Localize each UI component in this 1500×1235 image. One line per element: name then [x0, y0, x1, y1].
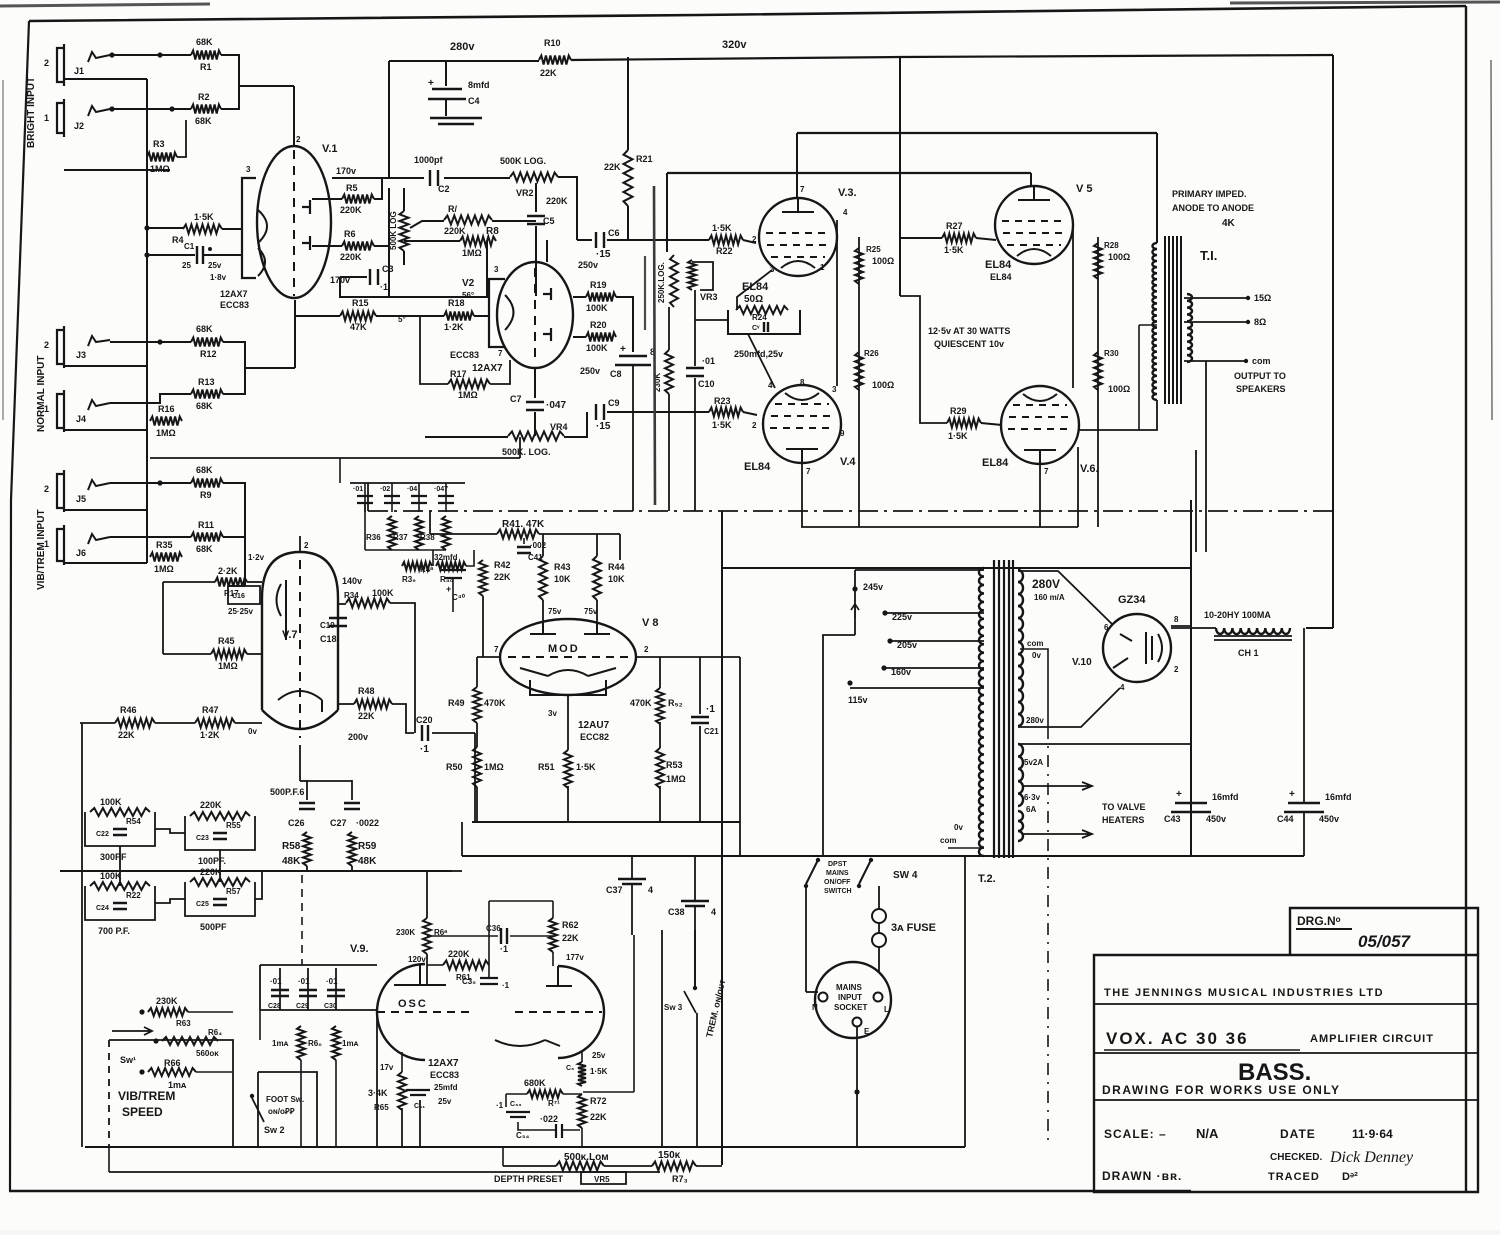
svg-text:205v: 205v — [897, 640, 917, 650]
svg-text:BRIGHT INPUT: BRIGHT INPUT — [26, 77, 37, 148]
svg-text:R53: R53 — [666, 760, 683, 770]
svg-text:·01: ·01 — [353, 486, 363, 493]
svg-text:C44: C44 — [1277, 814, 1294, 824]
wire C1 to grid box — [204, 254, 242, 256]
capacitor C7 .047 — [526, 402, 544, 410]
svg-text:V 5: V 5 — [1076, 183, 1093, 195]
wire grid feed — [163, 581, 215, 583]
wire lower return drop — [108, 1147, 110, 1172]
resistor R29 1.5K — [947, 419, 981, 428]
potentiometer VR3b — [688, 260, 696, 290]
wire R6 to C3 — [374, 246, 389, 277]
transformer T1 core — [1165, 236, 1181, 404]
wire C38 drop — [694, 856, 696, 901]
vib speed box left dashed — [108, 1040, 110, 1147]
tube V2 grid box — [489, 279, 505, 347]
wire caps box down — [259, 1010, 261, 1040]
svg-text:280V: 280V — [1032, 577, 1060, 591]
wire C38 down — [694, 906, 696, 986]
svg-text:C37: C37 — [606, 885, 623, 895]
svg-text:DPST: DPST — [828, 861, 847, 868]
wire C36 right — [510, 935, 553, 937]
wire C9 to R23 — [607, 411, 709, 413]
scan edge top right — [1230, 2, 1500, 3]
svg-text:220K: 220K — [340, 205, 362, 215]
svg-text:C41: C41 — [528, 553, 543, 562]
wire tap 245 — [855, 569, 984, 571]
svg-text:220K: 220K — [340, 252, 362, 262]
capacitor C21 .1 — [691, 717, 709, 723]
wire T1 tap com — [1184, 360, 1246, 362]
wire V1 grid drop — [293, 86, 295, 146]
switch SW3 — [684, 991, 696, 1013]
svg-text:R6₀: R6₀ — [308, 1039, 322, 1048]
wire R72 down — [581, 1128, 583, 1147]
svg-text:1: 1 — [44, 539, 49, 549]
wire bus 320 drop — [899, 57, 901, 296]
svg-text:R37: R37 — [393, 533, 408, 542]
tube V4 EL84 — [763, 385, 841, 463]
wire R41 right drop — [619, 534, 621, 560]
resistor R34 100K — [346, 599, 390, 608]
capacitor C25 — [213, 899, 227, 905]
svg-text:68K: 68K — [196, 465, 213, 475]
wire R4 to grid box — [222, 228, 242, 230]
wire left bottom rail — [81, 723, 83, 1147]
wire filter out — [255, 871, 262, 899]
svg-text:C23: C23 — [196, 835, 209, 842]
resistor R16 1M — [150, 417, 182, 426]
svg-text:8: 8 — [1174, 615, 1179, 624]
resistor R15 47K — [340, 312, 376, 321]
svg-text:·15: ·15 — [596, 249, 611, 260]
svg-text:THE JENNINGS MUSICAL INDUSTRIE: THE JENNINGS MUSICAL INDUSTRIES LTD — [1104, 987, 1384, 999]
wire to L pin — [806, 991, 818, 993]
crease line 2 — [644, 256, 646, 330]
svg-text:100K: 100K — [100, 871, 122, 881]
svg-text:FOOT Sᴡ.: FOOT Sᴡ. — [266, 1095, 304, 1104]
svg-text:500K LOG: 500K LOG — [389, 211, 398, 250]
wire R42 down — [482, 596, 484, 657]
svg-text:R₅₂: R₅₂ — [668, 698, 683, 708]
svg-text:7: 7 — [800, 185, 805, 194]
svg-text:12AX7: 12AX7 — [220, 289, 248, 299]
svg-text:R51: R51 — [538, 762, 555, 772]
svg-text:1MΩ: 1MΩ — [484, 762, 504, 772]
svg-text:SPEED: SPEED — [122, 1105, 163, 1119]
wire vib node down — [244, 523, 246, 586]
wire V7 out — [338, 703, 354, 705]
svg-text:1·5K: 1·5K — [576, 762, 596, 772]
tube V7 cathode cup — [278, 691, 322, 712]
wire 320v down right — [1332, 55, 1334, 628]
svg-text:C₃₄: C₃₄ — [516, 1131, 529, 1140]
wire J3 tip to R12 — [110, 341, 191, 343]
resistor R43 10K — [539, 556, 547, 600]
svg-text:120v: 120v — [408, 955, 426, 964]
wire ps top bus — [722, 567, 1191, 569]
wire R43 to V8 — [542, 600, 544, 622]
drg box — [1290, 908, 1478, 955]
svg-text:INPUT: INPUT — [838, 993, 862, 1002]
resistor R42 22K — [479, 560, 487, 596]
svg-text:V.9.: V.9. — [350, 943, 369, 955]
svg-text:R8: R8 — [486, 226, 499, 237]
resistor R35 1M — [150, 553, 182, 562]
wire J1 tip to R1 — [110, 54, 191, 56]
svg-text:22K: 22K — [540, 68, 557, 78]
svg-text:12·5v AT 30 WATTS: 12·5v AT 30 WATTS — [928, 326, 1010, 336]
wire filter down1 — [119, 846, 121, 886]
wire left rail — [146, 79, 148, 457]
junction sw2 top — [250, 1094, 254, 1098]
wire V6 pin9 up — [1077, 447, 1079, 527]
svg-text:J5: J5 — [76, 494, 86, 504]
wire R47 to V7 — [235, 722, 262, 724]
resistor R28 100 — [1094, 243, 1102, 279]
junction 160v — [881, 665, 886, 670]
wire C37 drop — [631, 856, 633, 879]
svg-text:T.I.: T.I. — [1200, 248, 1217, 263]
tube V2 anode bars — [543, 288, 551, 341]
svg-text:68K: 68K — [196, 401, 213, 411]
svg-text:R62: R62 — [562, 920, 579, 930]
svg-text:48K: 48K — [358, 856, 377, 867]
wire R17 right — [490, 360, 510, 384]
wire c33 net2 — [518, 1122, 556, 1130]
svg-text:C22: C22 — [96, 831, 109, 838]
svg-text:+: + — [620, 344, 626, 355]
resistor R19 100K — [586, 293, 616, 302]
resistor R56 100K — [90, 882, 150, 890]
resistor R63 230K — [148, 1008, 188, 1016]
wire bus jog — [461, 822, 463, 856]
potentiometer VR2 500K LOG — [510, 173, 558, 182]
svg-text:C27: C27 — [330, 818, 347, 828]
resistor R24 box — [728, 310, 800, 334]
wire T1 top drop — [1156, 133, 1158, 243]
svg-text:C⁴⁰: C⁴⁰ — [452, 593, 466, 602]
svg-text:·01: ·01 — [702, 356, 715, 366]
svg-text:+: + — [1289, 789, 1295, 800]
svg-text:1MΩ: 1MΩ — [462, 248, 482, 258]
svg-text:TO VALVE: TO VALVE — [1102, 802, 1146, 812]
svg-text:EL84: EL84 — [990, 272, 1012, 282]
svg-text:C8: C8 — [610, 369, 622, 379]
svg-text:R26: R26 — [864, 349, 879, 358]
resistor R41 47K — [497, 530, 539, 539]
svg-text:C3: C3 — [382, 264, 394, 274]
wire sw3 top — [694, 930, 696, 986]
wire V9 left down — [376, 1012, 378, 1147]
wire C3 stub — [339, 277, 341, 296]
svg-text:E: E — [864, 1027, 870, 1036]
scan edge right — [1491, 60, 1492, 420]
resistor R62 22K — [549, 918, 557, 952]
wire tone mid drop — [432, 550, 434, 566]
svg-text:1MΩ: 1MΩ — [150, 164, 170, 174]
svg-text:MAINS: MAINS — [826, 870, 849, 877]
junction sw4a bottom — [804, 884, 808, 888]
svg-text:5°: 5° — [398, 315, 406, 324]
wire V1 anode2 — [312, 245, 342, 247]
svg-text:1mᴀ: 1mᴀ — [272, 1039, 289, 1048]
svg-text:1·2v: 1·2v — [248, 553, 265, 562]
resistor R30 100 — [1094, 352, 1102, 390]
wire C6 feed — [577, 239, 592, 241]
svg-text:N: N — [812, 1003, 818, 1012]
capacitor C44 16mfd — [1284, 803, 1324, 812]
svg-text:C5: C5 — [543, 216, 555, 226]
svg-text:75v: 75v — [584, 607, 598, 616]
wire V7 pin down — [299, 745, 301, 781]
junction sw4a top — [816, 858, 820, 862]
wire V5 anode drop — [1030, 173, 1032, 186]
wire R62 top — [552, 901, 554, 918]
svg-text:·1: ·1 — [380, 282, 388, 292]
scan edge left — [2, 80, 4, 420]
resistor R below VR3 — [665, 350, 673, 394]
svg-text:68K: 68K — [196, 324, 213, 334]
svg-text:25mfd: 25mfd — [434, 1083, 458, 1092]
title line1 — [1094, 1003, 1478, 1005]
svg-text:R72: R72 — [590, 1096, 607, 1106]
svg-text:8Ω: 8Ω — [1254, 317, 1266, 327]
svg-text:470K: 470K — [484, 698, 506, 708]
svg-text:1: 1 — [820, 263, 825, 272]
svg-text:OUTPUT TO: OUTPUT TO — [1234, 371, 1286, 381]
wire VR1 bottom — [403, 251, 405, 265]
wire R23 to V4 grid — [743, 412, 757, 415]
wire VR3 chain down — [668, 307, 670, 350]
wire R49 top — [476, 657, 478, 687]
arrow heater1 — [1022, 782, 1092, 790]
svg-text:300PF: 300PF — [100, 852, 127, 862]
wire sw4a to socket — [805, 886, 807, 992]
wire V1 grid feed — [147, 227, 183, 229]
svg-text:1: 1 — [44, 113, 49, 123]
svg-text:SOCKET: SOCKET — [834, 1003, 867, 1012]
jack J2 tip contact — [88, 106, 110, 116]
svg-text:·01: ·01 — [298, 977, 310, 986]
wire HT bottom lead — [1018, 688, 1120, 727]
junction J2 tip — [109, 106, 114, 111]
potentiometer VR4 500K — [508, 432, 564, 441]
wire HT com dashed — [1047, 727, 1049, 1147]
resistor R55 220K — [190, 812, 250, 820]
svg-text:R59: R59 — [358, 841, 377, 852]
svg-text:7: 7 — [1044, 467, 1049, 476]
capacitor C29 .01 — [299, 990, 317, 996]
tube V8 bottom box — [530, 680, 606, 695]
svg-text:R38: R38 — [420, 533, 435, 542]
jack J4 tip contact — [88, 400, 110, 410]
switch SW1 wiper — [112, 1027, 152, 1035]
resistor R17b 2.2K — [215, 578, 247, 587]
wire V8 right rail — [739, 657, 741, 856]
potentiometer VR5 500K — [556, 1162, 604, 1171]
wire normal node to V1b — [245, 367, 295, 369]
svg-text:200v: 200v — [348, 732, 368, 742]
resistor R45 1M — [211, 650, 247, 659]
switch SW4 arm2 — [859, 860, 871, 884]
junction tap15 — [1246, 296, 1250, 300]
wire VR4 right — [564, 412, 587, 437]
capacitor C24 — [113, 903, 127, 909]
wire R46 left — [80, 722, 115, 724]
svg-text:EL84: EL84 — [744, 461, 771, 473]
wire R17 left — [420, 316, 448, 384]
arrow heater2 — [1022, 830, 1092, 838]
svg-text:2: 2 — [44, 58, 49, 68]
svg-text:C43: C43 — [1164, 814, 1181, 824]
wire R59 down — [351, 866, 353, 871]
wire VR1 wiper — [410, 221, 444, 228]
svg-text:V.7: V.7 — [282, 629, 298, 641]
tube V7 envelope — [262, 552, 338, 710]
wire V8 pin7 left — [477, 656, 500, 658]
wire R17b to grid — [247, 581, 262, 583]
svg-text:500P.F.6: 500P.F.6 — [270, 787, 304, 797]
jack J6 sleeve — [57, 525, 64, 565]
scan edge top left — [0, 4, 210, 6]
svg-text:R/: R/ — [448, 204, 457, 214]
svg-text:V.3.: V.3. — [838, 187, 857, 199]
svg-text:48K: 48K — [282, 856, 301, 867]
capacitor C9 .15 — [596, 404, 604, 420]
junction rail R4 — [144, 225, 149, 230]
svg-text:DATE: DATE — [1280, 1127, 1316, 1141]
svg-text:16mfd: 16mfd — [1212, 792, 1239, 802]
resistor R27 1.5K — [942, 234, 976, 243]
svg-text:220K: 220K — [200, 800, 222, 810]
wire T1 tap 8 — [1184, 321, 1248, 323]
wire R51 down — [567, 786, 569, 822]
transformer T1 primary winding — [1152, 243, 1157, 400]
wire tone left up — [339, 458, 341, 483]
svg-text:L: L — [884, 1005, 889, 1014]
svg-text:05/057: 05/057 — [1358, 932, 1412, 951]
capacitor C26 — [299, 803, 315, 809]
svg-text:·02: ·02 — [380, 486, 390, 493]
resistor R65 3.4K — [398, 1072, 406, 1110]
wire V5 screen link — [1072, 228, 1074, 388]
wire C20 to V8grid — [432, 732, 475, 734]
junction R64 — [153, 1038, 158, 1043]
tube V7 grid strokes — [277, 580, 287, 640]
svg-text:230K: 230K — [396, 928, 415, 937]
wire R66 right — [196, 1071, 233, 1073]
wire C8 down — [632, 365, 634, 511]
wire mains select — [823, 635, 855, 857]
svg-text:12AX7: 12AX7 — [472, 363, 503, 374]
wire c40 down — [452, 578, 454, 612]
svg-text:2: 2 — [304, 541, 309, 550]
svg-text:QUIESCENT 10v: QUIESCENT 10v — [934, 339, 1004, 349]
svg-text:R16: R16 — [158, 404, 175, 414]
svg-text:ECC82: ECC82 — [580, 732, 609, 742]
resistor R23 1.5K — [709, 408, 743, 417]
wire C12 stem — [391, 483, 393, 512]
capacitor C14 — [438, 496, 454, 503]
wire x634 link — [583, 1091, 634, 1093]
svg-text:10-20HY 100MA: 10-20HY 100MA — [1204, 610, 1271, 620]
tube V1 anode bars — [302, 200, 310, 250]
wire 280v drop — [388, 61, 390, 178]
svg-text:R3: R3 — [153, 139, 165, 149]
resistor R3 1M — [147, 153, 177, 162]
junction C1 plus — [208, 247, 212, 251]
wire J5 sleeve rail — [64, 509, 147, 511]
svg-text:68K: 68K — [195, 116, 212, 126]
junction 225v — [882, 610, 887, 615]
wire r73 right — [696, 1165, 722, 1167]
wire vr5 to r73 — [604, 1165, 652, 1167]
wire vib rail — [146, 457, 148, 563]
wire J1 sleeve to rail — [64, 78, 147, 80]
resistor R39 — [402, 562, 432, 570]
svg-text:6·3v: 6·3v — [1024, 793, 1041, 802]
svg-text:R63: R63 — [176, 1019, 191, 1028]
jack J1 tip contact — [88, 52, 110, 62]
capacitor C1 25mfd — [197, 246, 203, 264]
svg-text:·1: ·1 — [500, 944, 508, 954]
wire cathode bottom bus — [801, 526, 1078, 528]
wire VR2 right down — [558, 177, 577, 240]
svg-text:1·2K: 1·2K — [200, 730, 220, 740]
wire tone bottom — [365, 549, 446, 551]
tube V5 EL84 — [995, 186, 1073, 264]
wire top link to v7 — [300, 780, 307, 782]
svg-text:R20: R20 — [590, 320, 607, 330]
svg-text:MOD: MOD — [548, 643, 580, 655]
capacitor C38 4mfd — [681, 901, 709, 906]
svg-text:C3₅: C3₅ — [462, 977, 476, 986]
wire V4 bottom — [801, 463, 803, 527]
svg-text:R55: R55 — [226, 821, 241, 830]
wire R43 top — [542, 534, 544, 556]
resistor R61b 1M — [332, 1026, 340, 1060]
mains pin L — [874, 993, 883, 1002]
wire C2 to VR2 — [444, 177, 510, 179]
svg-text:100K: 100K — [372, 588, 394, 598]
resistor R73 150K — [652, 1162, 696, 1171]
transformer T2 6.3v winding — [1018, 811, 1023, 841]
svg-text:R7₃: R7₃ — [672, 1174, 688, 1184]
junction J1 tip — [109, 52, 114, 57]
filter box R55 — [185, 816, 255, 850]
resistor R17 1M — [448, 380, 490, 389]
wire heater upper — [1018, 743, 1191, 745]
resistor R9 68K — [191, 479, 223, 488]
fuse top — [872, 909, 886, 923]
svg-text:C6: C6 — [608, 228, 620, 238]
svg-text:250v: 250v — [580, 366, 600, 376]
wire 280v rail — [389, 60, 539, 62]
svg-text:VR5: VR5 — [594, 1175, 610, 1184]
svg-text:ECC83: ECC83 — [220, 300, 249, 310]
svg-text:Sᴡ¹: Sᴡ¹ — [120, 1055, 136, 1065]
resistor R8 1M — [460, 237, 496, 246]
resistor R66 1M — [148, 1068, 196, 1076]
svg-text:8mfd: 8mfd — [468, 80, 490, 90]
svg-text:R27: R27 — [946, 221, 963, 231]
wire R52 top — [659, 657, 661, 688]
svg-text:1: 1 — [44, 404, 49, 414]
svg-text:VOX. AC 30 36: VOX. AC 30 36 — [1106, 1029, 1249, 1048]
svg-text:R28: R28 — [1104, 241, 1119, 250]
svg-text:2: 2 — [752, 235, 757, 244]
